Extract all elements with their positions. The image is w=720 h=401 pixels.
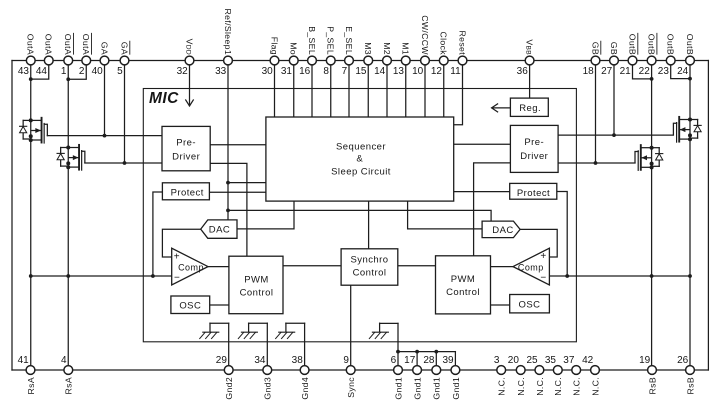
svg-text:32: 32 bbox=[177, 66, 189, 77]
svg-text:N.C.: N.C. bbox=[535, 377, 545, 396]
svg-text:M3: M3 bbox=[363, 42, 373, 55]
svg-text:Control: Control bbox=[353, 268, 387, 279]
svg-text:Pre-: Pre- bbox=[524, 137, 544, 148]
svg-text:RsB: RsB bbox=[647, 377, 657, 394]
svg-text:34: 34 bbox=[254, 355, 266, 366]
svg-text:28: 28 bbox=[423, 355, 435, 366]
svg-text:N.C.: N.C. bbox=[516, 377, 526, 396]
svg-text:24: 24 bbox=[677, 66, 689, 77]
svg-text:PWM: PWM bbox=[451, 274, 476, 285]
svg-text:OutA: OutA bbox=[26, 34, 36, 55]
svg-text:18: 18 bbox=[583, 66, 595, 77]
svg-text:Control: Control bbox=[240, 287, 274, 298]
svg-text:8: 8 bbox=[323, 66, 329, 77]
svg-text:25: 25 bbox=[526, 355, 538, 366]
svg-text:29: 29 bbox=[216, 355, 228, 366]
svg-text:OutB: OutB bbox=[685, 34, 695, 55]
svg-text:OutA: OutA bbox=[81, 34, 91, 55]
svg-text:12: 12 bbox=[431, 66, 443, 77]
svg-text:N.C.: N.C. bbox=[590, 377, 600, 396]
svg-text:6: 6 bbox=[391, 355, 397, 366]
svg-text:&: & bbox=[356, 154, 363, 165]
svg-text:GA: GA bbox=[99, 42, 109, 55]
svg-text:+: + bbox=[174, 252, 180, 263]
svg-text:Sequencer: Sequencer bbox=[336, 142, 386, 153]
svg-text:39: 39 bbox=[442, 355, 454, 366]
svg-text:Comp: Comp bbox=[518, 262, 544, 272]
svg-text:5: 5 bbox=[117, 66, 123, 77]
svg-text:Sync: Sync bbox=[346, 377, 356, 398]
svg-text:Gnd3: Gnd3 bbox=[263, 377, 273, 400]
svg-text:16: 16 bbox=[299, 66, 311, 77]
svg-text:GA: GA bbox=[119, 42, 129, 55]
svg-text:OutB: OutB bbox=[666, 34, 676, 55]
svg-text:OutA: OutA bbox=[44, 34, 54, 55]
svg-text:2: 2 bbox=[79, 66, 85, 77]
svg-text:N.C.: N.C. bbox=[553, 377, 563, 396]
svg-text:Driver: Driver bbox=[520, 151, 548, 162]
svg-text:Gnd1: Gnd1 bbox=[432, 377, 442, 400]
svg-text:26: 26 bbox=[677, 355, 689, 366]
svg-text:11: 11 bbox=[450, 66, 461, 77]
svg-text:10: 10 bbox=[412, 66, 424, 77]
svg-text:RsA: RsA bbox=[26, 377, 36, 394]
svg-text:Gnd1: Gnd1 bbox=[451, 377, 461, 400]
svg-text:RsB: RsB bbox=[685, 377, 695, 394]
svg-text:Flag: Flag bbox=[269, 37, 279, 55]
svg-text:N.C.: N.C. bbox=[572, 377, 582, 396]
svg-text:OSC: OSC bbox=[519, 300, 541, 311]
svg-text:MIC: MIC bbox=[149, 90, 179, 107]
svg-text:1: 1 bbox=[61, 66, 67, 77]
svg-text:41: 41 bbox=[18, 355, 30, 366]
svg-text:DAC: DAC bbox=[492, 225, 513, 236]
svg-text:15: 15 bbox=[355, 66, 367, 77]
svg-text:Gnd1: Gnd1 bbox=[393, 377, 403, 400]
svg-text:20: 20 bbox=[508, 355, 520, 366]
svg-text:M2: M2 bbox=[382, 42, 392, 55]
svg-text:Ref/Sleep1: Ref/Sleep1 bbox=[223, 9, 233, 55]
svg-text:Gnd2: Gnd2 bbox=[224, 377, 234, 400]
svg-text:35: 35 bbox=[545, 355, 557, 366]
svg-text:P_SEL: P_SEL bbox=[326, 26, 336, 55]
svg-text:OutB: OutB bbox=[647, 34, 657, 55]
svg-text:Comp: Comp bbox=[178, 262, 204, 272]
svg-text:Pre-: Pre- bbox=[176, 137, 196, 148]
svg-text:40: 40 bbox=[92, 66, 104, 77]
svg-text:N.C.: N.C. bbox=[497, 377, 507, 396]
svg-text:PWM: PWM bbox=[244, 274, 269, 285]
svg-text:E_SEL: E_SEL bbox=[344, 26, 354, 55]
svg-text:31: 31 bbox=[281, 66, 293, 77]
svg-text:Gnd1: Gnd1 bbox=[413, 377, 423, 400]
svg-text:30: 30 bbox=[262, 66, 274, 77]
svg-text:B_SEL: B_SEL bbox=[307, 26, 317, 55]
svg-text:38: 38 bbox=[292, 355, 304, 366]
svg-text:GB: GB bbox=[590, 42, 600, 55]
svg-text:Synchro: Synchro bbox=[350, 254, 388, 265]
svg-text:27: 27 bbox=[601, 66, 613, 77]
svg-text:14: 14 bbox=[374, 66, 386, 77]
svg-text:Mo: Mo bbox=[289, 42, 299, 55]
svg-text:Protect: Protect bbox=[171, 188, 204, 199]
svg-text:Driver: Driver bbox=[172, 151, 200, 162]
svg-text:44: 44 bbox=[36, 66, 48, 77]
svg-text:23: 23 bbox=[658, 66, 670, 77]
svg-text:4: 4 bbox=[61, 355, 67, 366]
svg-text:+: + bbox=[540, 251, 546, 262]
svg-text:13: 13 bbox=[393, 66, 405, 77]
svg-text:43: 43 bbox=[18, 66, 30, 77]
svg-text:Reset: Reset bbox=[457, 31, 467, 56]
svg-text:22: 22 bbox=[639, 66, 651, 77]
svg-text:GB: GB bbox=[609, 42, 619, 55]
svg-text:Control: Control bbox=[446, 287, 480, 298]
svg-text:OutA: OutA bbox=[63, 34, 73, 55]
svg-text:Gnd4: Gnd4 bbox=[300, 377, 310, 400]
svg-text:DAC: DAC bbox=[209, 225, 230, 236]
svg-text:−: − bbox=[540, 273, 546, 284]
svg-text:Protect: Protect bbox=[517, 188, 550, 199]
svg-text:−: − bbox=[174, 273, 180, 284]
svg-text:17: 17 bbox=[404, 355, 416, 366]
svg-text:33: 33 bbox=[215, 66, 227, 77]
svg-text:CW/CCW: CW/CCW bbox=[420, 15, 430, 55]
svg-text:Clock: Clock bbox=[439, 32, 449, 56]
svg-text:9: 9 bbox=[343, 355, 349, 366]
svg-text:Reg.: Reg. bbox=[519, 103, 541, 114]
svg-text:3: 3 bbox=[494, 355, 500, 366]
svg-text:37: 37 bbox=[563, 355, 575, 366]
svg-text:M1: M1 bbox=[401, 42, 411, 55]
svg-text:21: 21 bbox=[620, 66, 632, 77]
svg-text:OutB: OutB bbox=[627, 34, 637, 55]
svg-text:36: 36 bbox=[517, 66, 529, 77]
svg-text:19: 19 bbox=[639, 355, 651, 366]
svg-text:RsA: RsA bbox=[64, 377, 74, 394]
svg-text:OSC: OSC bbox=[179, 301, 201, 312]
svg-text:42: 42 bbox=[582, 355, 594, 366]
svg-text:Sleep Circuit: Sleep Circuit bbox=[331, 167, 391, 178]
svg-text:7: 7 bbox=[342, 66, 348, 77]
